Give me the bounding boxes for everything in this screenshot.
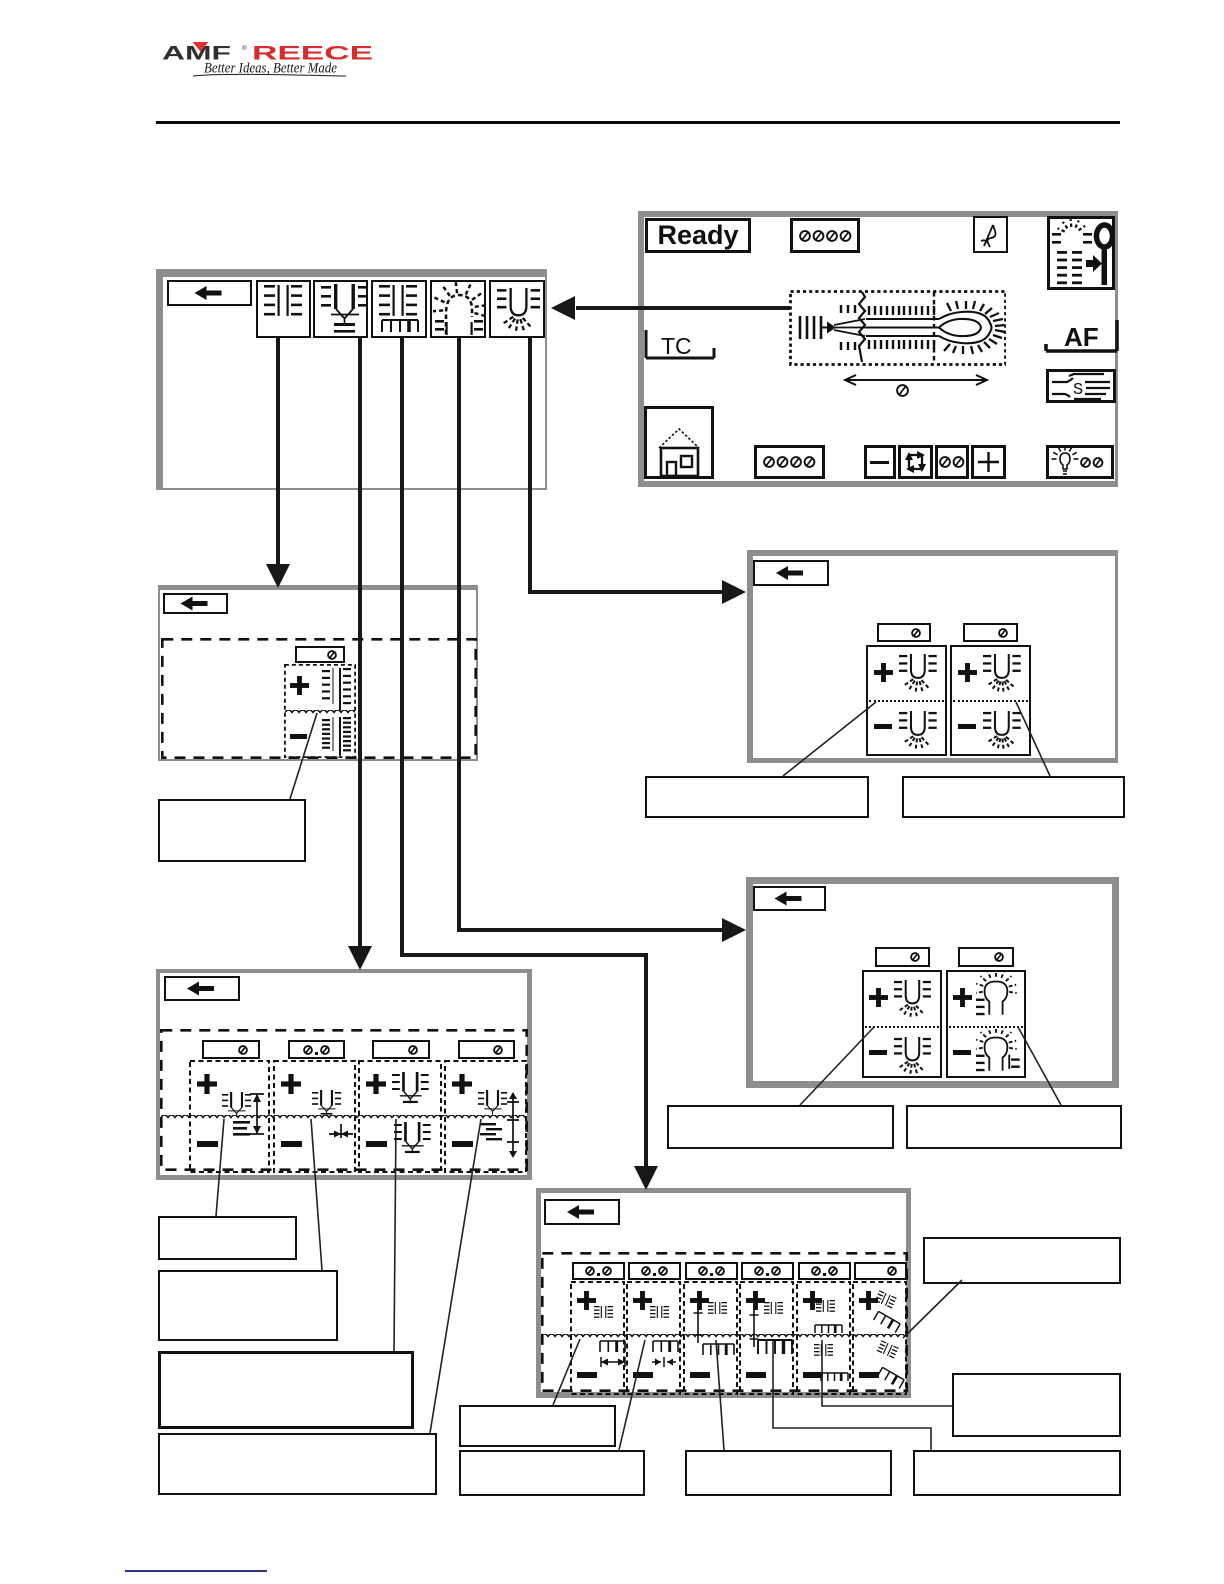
P6 value box L xyxy=(877,623,931,642)
callouts P7 xyxy=(800,1027,874,1105)
P7 group L xyxy=(862,970,942,1078)
svg-text:AF: AF xyxy=(1064,322,1099,352)
panel P1 settings menu xyxy=(156,269,547,490)
label box 1 xyxy=(158,1216,297,1260)
back arrow button xyxy=(544,1199,620,1225)
buttonhole size graphic xyxy=(789,290,1006,366)
lamp counter box xyxy=(1046,445,1114,479)
wire button5 to panel6 xyxy=(530,338,722,592)
footer blue line xyxy=(125,1570,267,1572)
P7 value box R xyxy=(958,947,1014,967)
arrowhead into panel7 xyxy=(722,918,746,942)
TC label xyxy=(644,328,719,361)
P4 value box xyxy=(741,1262,794,1280)
P3 value box 2 xyxy=(288,1040,345,1059)
P3 value box 4 xyxy=(458,1040,515,1059)
menu button 4 xyxy=(430,280,486,338)
panel P2 density screen xyxy=(158,585,478,761)
diameter symbol xyxy=(896,384,912,400)
home icon box xyxy=(644,406,714,479)
P2 value box xyxy=(295,646,345,663)
label box 5 xyxy=(459,1405,616,1447)
P3 dashed work area xyxy=(160,1029,528,1171)
label box: eye slant density xyxy=(667,1105,894,1149)
P4 value box xyxy=(572,1262,625,1280)
P4 column xyxy=(739,1281,794,1395)
menu button 5 xyxy=(489,280,545,338)
arrowhead into panel4 xyxy=(634,1166,658,1190)
arrowhead into panel1 xyxy=(551,296,575,320)
P3 column xyxy=(189,1060,270,1173)
plus box xyxy=(971,445,1006,479)
label box 3 xyxy=(158,1351,414,1429)
P2 dashed work area xyxy=(161,638,477,759)
svg-text:TC: TC xyxy=(661,333,692,359)
menu button 2 xyxy=(313,280,368,338)
P6 group R xyxy=(950,645,1031,756)
label box 7 xyxy=(685,1450,892,1496)
label box 6 xyxy=(459,1450,645,1496)
buttonhole-to-needle icon box xyxy=(1047,216,1115,290)
wire button2 to panel3 xyxy=(358,338,362,948)
P4 dashed work area xyxy=(541,1252,908,1392)
speed S icon box xyxy=(1046,369,1116,403)
label box 2 xyxy=(158,1270,338,1341)
P3 value box 1 xyxy=(202,1040,260,1059)
label box 4 xyxy=(158,1433,437,1495)
P4 column xyxy=(570,1281,625,1395)
P7 value box L xyxy=(875,947,930,967)
P6 value box R xyxy=(963,623,1018,642)
wire button1 to panel2 xyxy=(276,338,280,566)
svg-text:®: ® xyxy=(242,44,247,52)
P4 column xyxy=(683,1281,738,1395)
panel P3 four adjustments xyxy=(156,969,532,1180)
header rule xyxy=(156,121,1120,124)
arrowhead into panel3 xyxy=(348,946,372,970)
minus box xyxy=(864,445,896,479)
arrowhead into panel2 xyxy=(266,564,290,588)
callouts P3 xyxy=(216,1119,224,1216)
P3 column xyxy=(358,1060,442,1173)
wire panel5 to panel1 xyxy=(576,306,790,310)
P4 value box xyxy=(798,1262,851,1280)
wire button3 to panel4 xyxy=(402,338,646,1168)
P4 column xyxy=(852,1281,907,1395)
callouts P6 xyxy=(783,702,876,776)
P4 wavy separator xyxy=(541,1334,907,1341)
label box: right eye density xyxy=(902,776,1125,818)
P3 column xyxy=(444,1060,527,1173)
P4 column xyxy=(796,1281,851,1395)
counter box 0000 xyxy=(790,218,860,253)
P6 group L xyxy=(866,645,947,756)
logo AMF REECE xyxy=(162,40,392,82)
arrowhead into panel6 xyxy=(722,580,746,604)
P4 column xyxy=(626,1281,681,1395)
P4 value box xyxy=(854,1262,907,1280)
svg-text:S: S xyxy=(1073,381,1083,400)
back arrow button xyxy=(164,976,240,1001)
panel P4 six adjustments xyxy=(536,1188,911,1398)
P3 column xyxy=(273,1060,356,1173)
label box: eye top density xyxy=(906,1105,1122,1149)
label box 8 xyxy=(913,1450,1121,1496)
label box 10 xyxy=(952,1373,1121,1437)
back arrow button xyxy=(163,593,228,614)
wire button4 to panel7 xyxy=(459,338,722,930)
panel P7 eye density 2 xyxy=(746,877,1119,1088)
menu button 3 xyxy=(371,280,427,338)
panel P6 eye density xyxy=(747,550,1118,763)
counter box 2 xyxy=(754,445,825,479)
P3 value box 3 xyxy=(372,1040,430,1059)
AF label xyxy=(1044,318,1120,354)
P7 group R xyxy=(946,970,1026,1078)
counter 00 xyxy=(935,445,969,479)
P2 plus/minus button xyxy=(284,664,356,758)
cycle box xyxy=(898,445,933,479)
callouts P4 xyxy=(553,1339,580,1405)
P3 wavy separator xyxy=(161,1115,527,1122)
callout P2 xyxy=(290,713,317,799)
menu button 1 xyxy=(256,280,311,338)
needle thread icon box xyxy=(973,216,1008,253)
Ready box xyxy=(645,218,751,253)
label box: left eye density xyxy=(645,776,869,818)
label box: stitch density xyxy=(158,799,306,862)
length dimension arrow xyxy=(842,372,990,388)
panel P5 main screen xyxy=(638,211,1118,487)
back arrow button xyxy=(167,280,252,306)
back arrow button xyxy=(753,886,826,911)
back arrow button xyxy=(753,560,829,586)
label box 9 xyxy=(923,1237,1121,1284)
P2 wavy separator xyxy=(285,710,355,717)
P4 value box xyxy=(628,1262,681,1280)
P4 value box xyxy=(685,1262,738,1280)
